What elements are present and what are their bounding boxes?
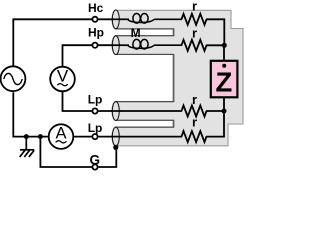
- svg-text:Hp: Hp: [88, 25, 104, 39]
- wire: Hp inside tube: [116, 44, 129, 46]
- wire: left rail bottom (osc to A line): [13, 92, 49, 136]
- coax cable end cap 3: [112, 102, 119, 121]
- node Hc: [98, 18, 116, 20]
- label Lp (potential): [88, 93, 103, 107]
- voltmeter V: [50, 67, 75, 92]
- wire: r2 to rail: [206, 44, 224, 46]
- wire: V bottom to Lp node: [63, 91, 92, 111]
- wire: r4 to rail corner up: [206, 111, 224, 137]
- label Hp: [88, 25, 104, 39]
- label M: [131, 26, 141, 40]
- node Lp: [98, 110, 182, 112]
- wire: coil2 to resistor r2: [154, 44, 182, 46]
- coax cable end cap 2: [112, 36, 119, 55]
- svg-text:A: A: [55, 124, 66, 142]
- label G: [90, 152, 101, 167]
- svg-text:r: r: [192, 115, 197, 130]
- label r4: [192, 115, 197, 130]
- svg-text:V: V: [57, 67, 69, 86]
- resistor r4: [182, 131, 207, 142]
- svg-text:Lp: Lp: [88, 93, 103, 107]
- label Hc: [88, 1, 104, 15]
- wire: Hp line from V corner to node: [63, 45, 93, 67]
- wire: A to Lc node: [73, 136, 92, 138]
- wire: G line: [40, 137, 91, 167]
- label r2: [192, 25, 197, 40]
- svg-text:r: r: [192, 25, 197, 40]
- label r1: [192, 0, 197, 14]
- oscillator OSC: [1, 66, 26, 91]
- coax cable end cap 1: [112, 10, 119, 29]
- svg-text:Hc: Hc: [88, 1, 104, 15]
- ammeter A: [49, 124, 74, 149]
- svg-text:r: r: [192, 92, 197, 107]
- node Lc: [98, 136, 182, 138]
- inductor coil L1 (Hc): [128, 13, 155, 23]
- wire: Hc line inside tube to coil: [116, 18, 129, 20]
- junction dot ground: [24, 134, 29, 139]
- ground: [20, 137, 35, 157]
- resistor r3: [182, 106, 207, 117]
- node G: [98, 148, 116, 167]
- resistor r1: [182, 14, 207, 25]
- wire: coil to resistor r1: [154, 18, 182, 20]
- DUT impedance Z box: [211, 61, 238, 98]
- tube inner edges (dark): [115, 29, 174, 127]
- svg-text:Z: Z: [215, 66, 232, 97]
- junction dot G branch: [38, 134, 43, 139]
- svg-text:M: M: [131, 26, 141, 40]
- resistor r2: [182, 40, 207, 51]
- rail through DUT: [223, 45, 225, 111]
- wire: r1 to rail corner: [206, 19, 224, 45]
- junction dot rail/r2: [222, 43, 227, 48]
- wire: r3 to rail: [206, 110, 224, 112]
- node Hp: [98, 44, 116, 46]
- label r3: [192, 92, 197, 107]
- svg-text:r: r: [192, 0, 197, 14]
- shield connection dot: [113, 145, 118, 150]
- inductor coil L2 (Hp): [128, 39, 155, 49]
- svg-text:Lp: Lp: [88, 121, 103, 135]
- shield region (gray silhouette with coax tubes): [112, 10, 243, 146]
- wire: left rail top (osc to Hc corner): [13, 19, 92, 67]
- coax cable end cap 4: [112, 127, 119, 146]
- label Lp (current): [88, 121, 103, 135]
- junction dot rail/r3: [222, 109, 227, 114]
